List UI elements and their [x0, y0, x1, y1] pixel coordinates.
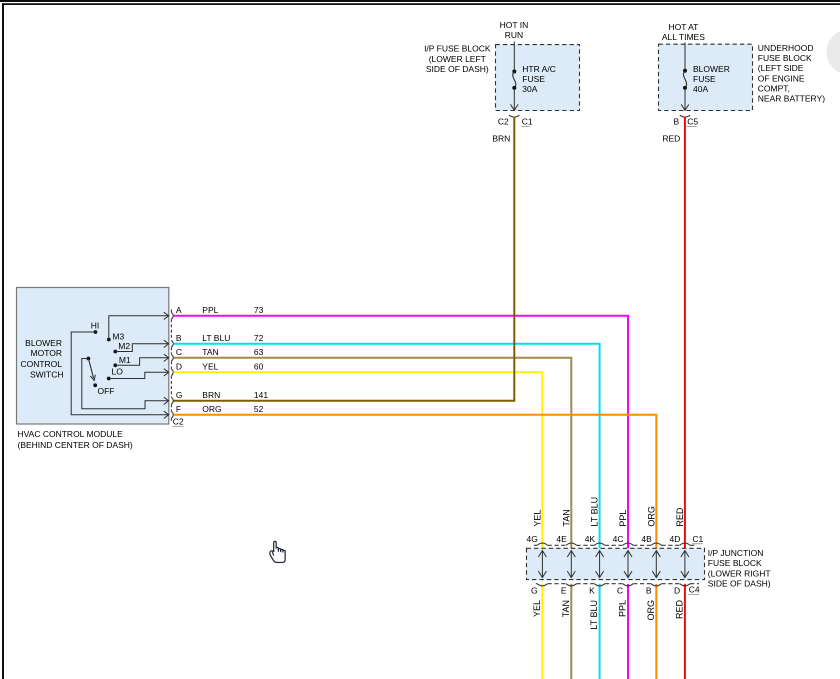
svg-text:RED: RED: [662, 133, 680, 143]
fuse HTR A/C 30A symbol: [512, 70, 516, 74]
bottom bump D: [680, 584, 690, 586]
wire PPL 73: [174, 316, 629, 549]
connector C2 dashed body line: [170, 310, 172, 313]
pin G arrowhead: [164, 397, 169, 404]
svg-text:SIDE OF DASH): SIDE OF DASH): [708, 579, 771, 589]
switch contact M3: [107, 338, 111, 342]
junction double arrow PPL: [627, 551, 629, 578]
svg-text:G: G: [176, 390, 183, 400]
svg-text:141: 141: [254, 390, 268, 400]
svg-text:B: B: [674, 117, 680, 127]
svg-text:LT BLU: LT BLU: [589, 600, 599, 630]
wire LT BLU 72: [174, 344, 600, 549]
svg-text:A: A: [176, 305, 182, 315]
svg-text:LT BLU: LT BLU: [202, 333, 230, 343]
svg-text:RED: RED: [674, 600, 684, 620]
svg-text:FUSE BLOCK: FUSE BLOCK: [758, 53, 812, 63]
svg-text:C2: C2: [173, 416, 184, 426]
pin B connector bump: [171, 340, 173, 347]
svg-text:(LOWER LEFT: (LOWER LEFT: [429, 54, 486, 64]
svg-text:M1: M1: [119, 355, 131, 365]
junction top connector line C1: [534, 544, 537, 546]
switch contact OFF: [93, 383, 97, 387]
junction double arrow RED: [684, 551, 686, 578]
svg-text:I/P FUSE BLOCK: I/P FUSE BLOCK: [424, 44, 491, 54]
hand cursor: [270, 541, 285, 562]
svg-text:C: C: [176, 347, 182, 357]
junction double arrow YEL: [541, 551, 543, 578]
svg-text:TAN: TAN: [561, 509, 571, 526]
pin D connector bump: [171, 369, 173, 376]
svg-text:ORG: ORG: [646, 506, 656, 527]
svg-text:LO: LO: [112, 367, 124, 377]
svg-text:SIDE OF DASH): SIDE OF DASH): [426, 64, 489, 74]
svg-text:52: 52: [254, 404, 264, 414]
svg-text:63: 63: [254, 347, 264, 357]
wire + arrow to connector C5: [684, 90, 686, 110]
switch wiper arm with arrow: [88, 359, 93, 379]
bottom bump C: [623, 584, 633, 586]
internal wire M1 to pin C: [115, 358, 168, 366]
svg-text:PPL: PPL: [618, 510, 628, 527]
svg-text:C2: C2: [498, 116, 509, 126]
svg-text:FUSE: FUSE: [522, 74, 545, 84]
svg-text:K: K: [589, 585, 595, 595]
top toolbar edge line: [0, 0, 840, 2]
svg-text:HOT IN: HOT IN: [500, 20, 529, 30]
HVAC control module box: [17, 288, 169, 425]
svg-text:OFF: OFF: [98, 386, 115, 396]
junction double arrow LTBLU: [599, 551, 601, 578]
svg-text:C4: C4: [689, 584, 700, 594]
fuse BLOWER 40A symbol: [683, 69, 687, 73]
wire RED field from fuse to junction: [684, 117, 686, 549]
svg-text:RED: RED: [675, 507, 685, 527]
svg-text:ALL TIMES: ALL TIMES: [662, 32, 705, 42]
pin G connector bump: [171, 397, 173, 404]
svg-text:B: B: [646, 585, 652, 595]
wire + arrow to connector C1: [513, 90, 515, 110]
svg-text:D: D: [674, 585, 680, 595]
svg-text:PPL: PPL: [202, 305, 218, 315]
switch contact HI: [94, 330, 98, 334]
svg-text:HOT AT: HOT AT: [668, 22, 698, 32]
svg-text:HVAC CONTROL MODULE: HVAC CONTROL MODULE: [18, 429, 124, 439]
pin F connector bump: [171, 411, 173, 418]
pin F arrowhead: [164, 411, 169, 418]
svg-text:B: B: [176, 333, 182, 343]
connector cup symbol: [680, 115, 690, 117]
wire BRN 141: [174, 117, 515, 401]
svg-text:ORG: ORG: [646, 600, 656, 621]
svg-text:30A: 30A: [522, 84, 537, 94]
top bump 4E: [566, 543, 576, 545]
top bump 4K: [594, 543, 604, 545]
switch contact M1: [113, 363, 117, 367]
bottom bump G: [537, 584, 547, 586]
gray round button top right: [827, 30, 840, 75]
svg-text:YEL: YEL: [532, 510, 542, 527]
svg-text:YEL: YEL: [202, 362, 218, 372]
svg-text:M3: M3: [112, 331, 124, 341]
svg-text:TAN: TAN: [202, 347, 218, 357]
top bump 4G: [537, 543, 547, 545]
svg-text:YEL: YEL: [532, 600, 542, 617]
wire ORG 52: [174, 415, 657, 549]
pin A arrowhead: [164, 312, 169, 319]
svg-text:LT BLU: LT BLU: [590, 497, 600, 527]
internal wire M2 to pin B: [115, 344, 168, 352]
bottom bump B: [651, 584, 661, 586]
svg-text:4E: 4E: [556, 534, 567, 544]
svg-text:(LOWER RIGHT: (LOWER RIGHT: [708, 568, 771, 578]
svg-text:PPL: PPL: [618, 600, 628, 617]
diagram frame top border: [2, 3, 840, 5]
wire into fuse: [513, 42, 515, 70]
junction bottom connector line C4: [536, 583, 537, 585]
svg-text:SWITCH: SWITCH: [30, 369, 64, 379]
svg-text:F: F: [176, 404, 181, 414]
wire TAN 63: [174, 358, 572, 549]
svg-text:72: 72: [254, 333, 264, 343]
svg-text:E: E: [561, 585, 567, 595]
svg-text:BRN: BRN: [202, 390, 220, 400]
wire into fuse: [684, 43, 686, 70]
junction double arrow TAN: [570, 551, 572, 578]
svg-text:RUN: RUN: [505, 30, 523, 40]
svg-text:UNDERHOOD: UNDERHOOD: [758, 43, 814, 53]
svg-text:C1: C1: [522, 116, 533, 126]
top bump 4B: [651, 543, 661, 545]
pin B arrowhead: [164, 340, 169, 347]
internal wire pivot to pin G: [82, 359, 169, 409]
svg-text:4C: 4C: [613, 534, 624, 544]
internal wire HI to pin F: [71, 332, 168, 415]
internal wire LO to pin D: [109, 372, 169, 378]
switch contact PV: [87, 357, 91, 361]
svg-text:HTR A/C: HTR A/C: [522, 64, 556, 74]
svg-text:G: G: [531, 585, 538, 595]
svg-text:C1: C1: [692, 534, 703, 544]
svg-text:FUSE BLOCK: FUSE BLOCK: [708, 558, 762, 568]
svg-text:(LEFT SIDE: (LEFT SIDE: [758, 63, 804, 73]
svg-text:BLOWER: BLOWER: [693, 64, 730, 74]
pin A connector bump: [171, 312, 173, 319]
svg-text:M2: M2: [118, 341, 130, 351]
svg-text:HI: HI: [91, 321, 100, 331]
I/P fuse block dashed box: [496, 45, 580, 111]
bottom bump E: [566, 584, 576, 586]
svg-text:60: 60: [254, 362, 264, 372]
svg-text:MOTOR: MOTOR: [31, 348, 62, 358]
underhood fuse block dashed box: [659, 44, 753, 110]
svg-text:BRN: BRN: [492, 133, 510, 143]
svg-text:C5: C5: [687, 117, 698, 127]
svg-text:40A: 40A: [693, 84, 708, 94]
connector cup symbol: [509, 115, 519, 117]
svg-text:COMPT,: COMPT,: [758, 83, 790, 93]
svg-text:4B: 4B: [641, 534, 652, 544]
svg-text:4D: 4D: [670, 534, 681, 544]
svg-text:ORG: ORG: [202, 404, 221, 414]
svg-text:I/P JUNCTION: I/P JUNCTION: [708, 548, 764, 558]
svg-text:4K: 4K: [585, 534, 596, 544]
diagram frame left border: [2, 3, 4, 679]
switch contact M2: [113, 350, 117, 354]
svg-text:OF ENGINE: OF ENGINE: [758, 73, 805, 83]
bottom bump K: [594, 584, 604, 586]
top bump 4D: [680, 543, 690, 545]
wire YEL 60: [174, 372, 543, 548]
svg-text:(BEHIND CENTER OF DASH): (BEHIND CENTER OF DASH): [18, 440, 133, 450]
svg-text:C: C: [617, 585, 623, 595]
switch contact LO: [107, 377, 111, 381]
internal wire M3 to pin A: [109, 316, 169, 340]
svg-text:D: D: [176, 362, 182, 372]
svg-text:73: 73: [254, 305, 264, 315]
svg-text:BLOWER: BLOWER: [25, 338, 62, 348]
svg-text:NEAR BATTERY): NEAR BATTERY): [758, 93, 825, 103]
junction double arrow ORG: [655, 551, 657, 578]
top bump 4C: [623, 543, 633, 545]
pin D arrowhead: [164, 369, 169, 376]
I/P junction fuse block dashed box: [527, 548, 705, 579]
pin C connector bump: [171, 354, 173, 361]
svg-text:TAN: TAN: [561, 600, 571, 617]
pin C arrowhead: [164, 354, 169, 361]
svg-text:CONTROL: CONTROL: [20, 359, 62, 369]
svg-text:FUSE: FUSE: [693, 74, 716, 84]
svg-text:4G: 4G: [527, 534, 538, 544]
